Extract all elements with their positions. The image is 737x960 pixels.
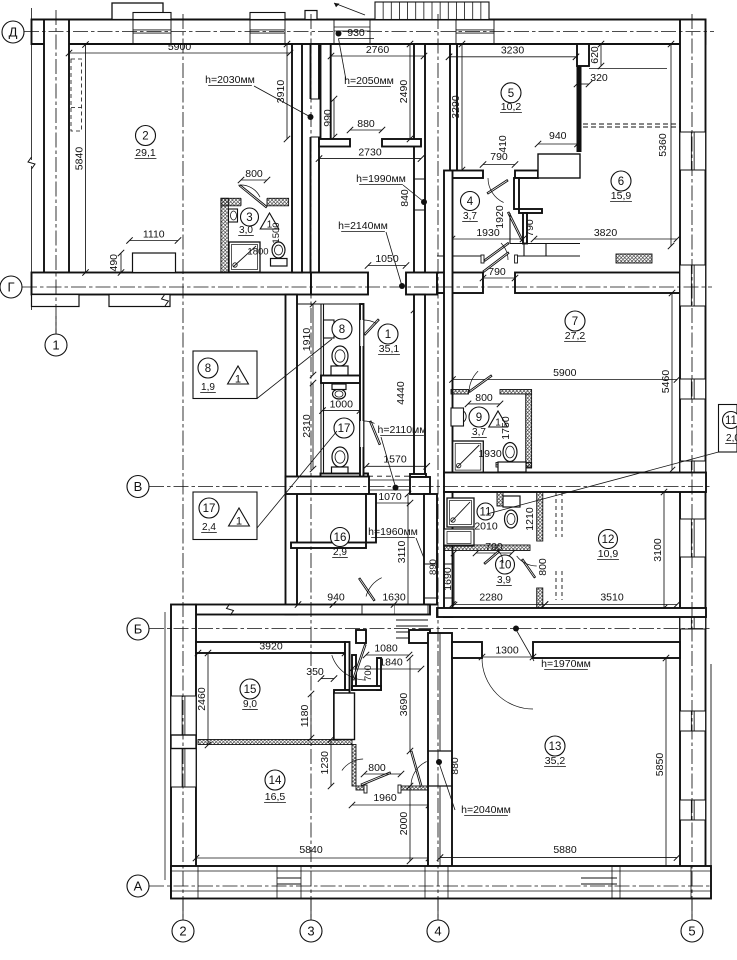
svg-text:3910: 3910 [275, 80, 287, 104]
room 4 top wall [450, 171, 483, 179]
room 17 toilet [332, 447, 348, 467]
stair wall opening [425, 564, 436, 598]
dimension 2490 [409, 44, 411, 139]
svg-text:700: 700 [363, 665, 374, 681]
dimension 1690 [453, 553, 455, 605]
svg-text:3820: 3820 [594, 227, 618, 239]
svg-text:1,9: 1,9 [201, 382, 215, 393]
top wall window W1 [133, 20, 171, 45]
partition 10/12 hatched upper [537, 492, 543, 541]
dimension 880 door [350, 129, 382, 131]
leader h=1990 [403, 185, 424, 202]
room 9 north wall hatched [451, 390, 469, 395]
room 11 shower [447, 498, 474, 527]
dimension 490 [120, 253, 122, 273]
dimension 5840 room2 [85, 45, 87, 273]
dimension 3910 [286, 44, 288, 139]
dimension 1230 [330, 740, 332, 787]
svg-text:2,9: 2,9 [333, 547, 347, 558]
band A (block bottom wall) [196, 605, 430, 615]
svg-text:790: 790 [490, 151, 508, 163]
wc block top wall line [297, 303, 363, 305]
left exterior wall [44, 20, 69, 273]
svg-text:8: 8 [205, 363, 211, 375]
svg-text:1920: 1920 [494, 205, 506, 229]
svg-text:1230: 1230 [319, 751, 331, 775]
axis circle G [0, 276, 22, 298]
V wall left block [286, 477, 370, 495]
top wall window W2 [250, 20, 285, 45]
room13 north wall [452, 642, 482, 658]
dot h=2140 [399, 283, 405, 289]
dimension 5840 bottom [196, 857, 429, 859]
svg-text:490: 490 [108, 254, 120, 272]
svg-text:h=2040мм: h=2040мм [461, 804, 511, 816]
svg-text:6: 6 [618, 176, 624, 188]
svg-text:3,0: 3,0 [239, 225, 253, 236]
west wall opening 890 [445, 564, 452, 598]
closet dividers [523, 244, 525, 257]
bottom wall band with vents [171, 866, 711, 899]
svg-text:880: 880 [357, 118, 375, 130]
dimension 1630 bottom [333, 604, 394, 606]
room 2 number circle [136, 126, 156, 146]
dimension 1070 [369, 502, 410, 504]
svg-text:17: 17 [338, 423, 351, 435]
svg-text:35,2: 35,2 [545, 755, 566, 767]
svg-text:1960: 1960 [373, 792, 397, 804]
room 15 north wall [196, 642, 345, 653]
svg-text:1: 1 [385, 329, 391, 341]
dimension 800 room9 [468, 403, 500, 405]
svg-text:1500: 1500 [271, 222, 282, 243]
svg-text:8: 8 [339, 324, 345, 336]
svg-text:2: 2 [142, 131, 148, 143]
dot h=2040 [436, 759, 442, 765]
svg-text:1840: 1840 [379, 657, 403, 669]
axis circle D [2, 21, 24, 43]
svg-text:1080: 1080 [374, 643, 398, 655]
room 4 number circle [461, 192, 480, 211]
partition strip vert hatched [352, 745, 356, 787]
svg-text:1: 1 [235, 374, 241, 386]
right wall window y519 [680, 519, 706, 557]
opening 790 G wall [482, 273, 484, 294]
G wall band left stretch [32, 273, 312, 295]
dimension 1080 [366, 654, 409, 656]
right wall window y461 [680, 461, 706, 481]
svg-text:890: 890 [428, 559, 439, 575]
dimension 1570 [366, 465, 427, 467]
left wall pilaster [171, 735, 196, 749]
dimension 3230 [449, 56, 576, 58]
room 3 north wall hatched [221, 198, 289, 206]
axis stem 2 [182, 899, 184, 921]
svg-text:1930: 1930 [476, 227, 500, 239]
door leaf wc [508, 212, 523, 241]
room 8 toilet 2 [333, 389, 346, 399]
hall niche bottom [352, 686, 381, 690]
dimension 940 room5 [538, 143, 578, 145]
room 16 number circle [331, 528, 350, 547]
G wall break mark [162, 294, 169, 306]
party wall niche opening [303, 99, 330, 137]
pilaster above wall axis3 [305, 11, 317, 20]
dimension 1960 [352, 804, 429, 806]
svg-text:h=1970мм: h=1970мм [541, 658, 591, 670]
svg-text:Г: Г [7, 280, 14, 295]
wc partition 8/17 [321, 376, 360, 384]
svg-text:3690: 3690 [398, 693, 410, 717]
dimension 350 [321, 678, 334, 680]
door arc room4 top [488, 178, 504, 203]
middle block west wall [286, 295, 298, 615]
box17 leader [257, 431, 337, 528]
svg-text:800: 800 [537, 558, 549, 576]
svg-text:990: 990 [322, 109, 334, 127]
svg-text:2460: 2460 [196, 687, 208, 711]
partition y243 right flat [510, 243, 580, 245]
door 880 arc [411, 762, 427, 787]
dimension 2280 [453, 604, 546, 606]
svg-text:1570: 1570 [383, 454, 407, 466]
svg-text:5880: 5880 [553, 844, 577, 856]
svg-text:3,7: 3,7 [463, 211, 477, 222]
svg-text:350: 350 [306, 666, 324, 678]
band A opening door16 [362, 606, 394, 614]
axis stem 4 [437, 899, 439, 921]
room 2 radiator rect [133, 253, 176, 273]
room 8 number circle (plan) [332, 319, 352, 339]
svg-text:4440: 4440 [395, 381, 407, 405]
leader h=2050 [339, 39, 347, 81]
svg-text:790: 790 [524, 219, 536, 237]
leader h=1960 [416, 538, 431, 576]
svg-text:3230: 3230 [501, 45, 525, 57]
room 5 number circle [501, 83, 521, 103]
room 8 toilet 1 [332, 346, 348, 366]
svg-text:3,9: 3,9 [497, 575, 511, 586]
wc door 8 opening [360, 320, 363, 346]
axis stem 1 [55, 316, 57, 334]
dimension 3820 [534, 238, 677, 240]
partition 15/14 hatched [198, 740, 352, 745]
dimension 3510 [545, 604, 677, 606]
box8 triangle [228, 366, 249, 384]
svg-text:800: 800 [475, 392, 493, 404]
room 6 number circle [611, 171, 631, 191]
party wall axis3 left layer [292, 44, 302, 273]
partition y786 hatched [356, 786, 364, 790]
svg-text:800: 800 [245, 168, 263, 180]
dimension 5360 [670, 44, 672, 246]
wc west thin wall [320, 304, 322, 479]
room 7 number circle [565, 311, 585, 331]
svg-text:h=2050мм: h=2050мм [344, 75, 394, 87]
room 2 vent niche dashed [71, 59, 82, 131]
svg-text:880: 880 [449, 757, 461, 775]
room 3 west wall hatched [221, 198, 229, 272]
svg-text:1800: 1800 [247, 247, 268, 258]
dimension 990 niche [333, 99, 335, 137]
svg-text:2,0: 2,0 [726, 433, 737, 444]
dimension 700 [476, 552, 512, 554]
dimension 3920 [198, 652, 345, 654]
room13 west wall inner line [439, 633, 441, 751]
dimension 3690 [409, 658, 411, 751]
right wall window y711 [680, 711, 706, 731]
room 3 shower tray [229, 242, 260, 272]
axis D line [24, 31, 714, 33]
dimension 320 [577, 83, 589, 85]
door arc vestibule [501, 243, 508, 260]
room 9 toilet [503, 443, 517, 462]
dot 930 [336, 31, 342, 37]
svg-text:Б: Б [134, 622, 143, 637]
dimension 3110 [407, 494, 409, 610]
svg-text:5900: 5900 [168, 41, 192, 53]
window W3 symbol [455, 20, 457, 45]
svg-text:2730: 2730 [358, 147, 382, 159]
room 11 number circle [477, 503, 494, 520]
svg-text:А: А [134, 879, 143, 894]
svg-text:2760: 2760 [366, 44, 390, 56]
svg-text:5360: 5360 [657, 133, 669, 157]
svg-text:5: 5 [688, 924, 695, 939]
svg-text:1070: 1070 [378, 491, 402, 503]
leader h=2030 [254, 86, 311, 117]
svg-text:h=2030мм: h=2030мм [205, 74, 255, 86]
dimension 1930 room4 [452, 238, 523, 240]
svg-text:1180: 1180 [299, 705, 311, 728]
room 15 number circle [240, 679, 260, 699]
right wall window y132 [680, 132, 706, 170]
wc door 17 leaf [370, 421, 381, 445]
axis 3 line [310, 14, 312, 918]
svg-text:11: 11 [725, 415, 737, 427]
door 1300 jambs [481, 642, 483, 658]
svg-text:h=1990мм: h=1990мм [356, 173, 406, 185]
wc door 8 leaf [364, 319, 379, 335]
G wall pilaster bump 2 [109, 295, 170, 307]
svg-text:10,9: 10,9 [598, 548, 619, 560]
leader h=2110 [381, 437, 396, 487]
room 9 east wall hatched [526, 394, 532, 468]
svg-text:5900: 5900 [553, 367, 577, 379]
axis stem 5 [691, 899, 693, 921]
axis G line [22, 286, 712, 288]
dimension 2000 [409, 786, 411, 861]
dimension 800 room3 [241, 179, 267, 181]
svg-text:Д: Д [9, 25, 18, 40]
stair party wall [424, 494, 437, 605]
dot h=1970 [513, 626, 519, 632]
svg-text:3: 3 [246, 212, 252, 224]
wall room4 east [523, 213, 527, 244]
left wall window y748 [171, 748, 196, 787]
entrance opening jambs [333, 20, 335, 45]
annotation box 8 [193, 351, 257, 399]
axis A line [149, 885, 711, 887]
party wall axis3 right layer [311, 44, 320, 273]
svg-text:620: 620 [589, 46, 601, 64]
svg-text:5: 5 [508, 88, 514, 100]
dimension 1840 [352, 668, 421, 670]
axis circle V [127, 476, 149, 498]
hall door arc [332, 655, 366, 680]
dimension 3290 [461, 44, 463, 170]
room 1 number circle [378, 324, 398, 344]
left wall outer line [164, 612, 166, 880]
room 9 washbasin [451, 408, 464, 426]
dimension 2460 [207, 653, 209, 745]
box11 circle [723, 412, 737, 429]
hall top band [356, 630, 366, 643]
dot h=1960 [428, 574, 434, 580]
svg-text:1750: 1750 [500, 416, 512, 440]
dimension 790 door5 [483, 164, 515, 166]
dimension 4440 [413, 310, 415, 476]
opening 880 jambs [349, 139, 351, 147]
room 9 shower [453, 441, 484, 473]
room 11 bath [444, 529, 474, 546]
door leaf G door [483, 252, 509, 272]
block 10 west wall [444, 492, 453, 617]
top wall (axis D) outer band [32, 20, 706, 45]
room15 east wall lower [334, 694, 338, 740]
axis 2 line [182, 14, 184, 918]
band A opening porch [394, 606, 428, 614]
svg-text:3100: 3100 [652, 538, 664, 562]
axis circle B [127, 618, 149, 640]
entrance porch steps [375, 2, 489, 20]
upper middle room walls: party wall axis4 left strip [414, 44, 425, 273]
door 800 arc [342, 759, 363, 771]
room 10 door leaf [484, 551, 499, 564]
svg-text:4: 4 [467, 196, 474, 208]
room13 west door opening [429, 751, 451, 786]
vestibule door leaf [359, 578, 375, 601]
svg-text:9,0: 9,0 [243, 699, 257, 710]
right wall window y379 [680, 379, 706, 399]
svg-text:4: 4 [434, 924, 441, 939]
niche leader dot [308, 114, 314, 120]
room 17 bottom wall [321, 474, 368, 479]
door 10/12 leaf [522, 559, 536, 578]
dimension 5460 [671, 293, 673, 470]
svg-text:10: 10 [499, 560, 512, 572]
left wall bottom block [171, 605, 196, 898]
vestibule door arc [366, 578, 382, 597]
box11 leader [487, 452, 719, 514]
svg-text:1050: 1050 [375, 253, 399, 265]
svg-text:14: 14 [269, 775, 282, 787]
room1 bottom wall piece [364, 474, 369, 479]
svg-text:940: 940 [549, 130, 567, 142]
dimension 1910 [312, 304, 314, 375]
wc door 17 opening [360, 421, 363, 447]
svg-text:2000: 2000 [398, 812, 410, 836]
dimension 1050 [368, 265, 406, 267]
svg-text:29,1: 29,1 [135, 147, 156, 159]
axis 4 line [437, 14, 439, 918]
room 9 south wall hatched [496, 463, 532, 468]
axis circle A [127, 875, 149, 897]
box8 leader [257, 339, 332, 399]
room 11 hatch top [497, 492, 503, 506]
svg-text:11: 11 [480, 507, 492, 519]
svg-text:h=1960мм: h=1960мм [368, 526, 418, 538]
dimension 1180 [310, 694, 312, 738]
door leaf vestibule [484, 243, 509, 262]
leader h=1970 [516, 630, 534, 662]
dimension 790 G door [483, 277, 515, 279]
dot h=1990 [421, 199, 427, 205]
G wall middle stretch [311, 273, 368, 295]
window W1 symbol [132, 20, 134, 45]
rooms 5/6 dashed partition [583, 123, 680, 125]
room 17 number circle (plan) [334, 418, 354, 438]
G wall pilaster bump 1 [32, 295, 80, 307]
svg-text:1110: 1110 [143, 229, 165, 241]
svg-text:930: 930 [347, 27, 365, 39]
balcony slab top-left [112, 3, 163, 20]
axis V line [149, 486, 711, 488]
dimension 940 bottom [298, 604, 333, 606]
svg-text:13: 13 [549, 741, 562, 753]
top wall window W3 [456, 20, 494, 45]
dimension 1110 [130, 240, 179, 242]
room 10 number circle [496, 555, 515, 574]
svg-text:1: 1 [236, 516, 242, 528]
axis circle 4 [427, 920, 449, 942]
svg-text:3510: 3510 [600, 592, 624, 604]
room 9 number circle [469, 407, 489, 427]
room 14 number circle [265, 770, 285, 790]
room16 south wall [291, 543, 366, 549]
wc door 17 arc [364, 421, 375, 423]
svg-text:5840: 5840 [74, 147, 86, 171]
opening 1050 in G wall [367, 273, 369, 295]
svg-text:1930: 1930 [478, 448, 502, 460]
room 9 triangle [489, 411, 508, 427]
axis circle 3 [300, 920, 322, 942]
room16 partition [366, 494, 376, 543]
band A break mark [227, 604, 234, 616]
partition 11/10 hatched [444, 545, 530, 551]
svg-text:h=2110мм: h=2110мм [378, 424, 427, 436]
door 800 leaf [361, 772, 391, 785]
svg-text:9: 9 [476, 412, 482, 424]
room 3 door leaf [239, 185, 267, 208]
svg-text:3290: 3290 [450, 95, 462, 119]
axis stem 3 [310, 899, 312, 921]
room5/6 pier wall [577, 44, 589, 66]
svg-text:2280: 2280 [479, 592, 503, 604]
room 10 door arc [494, 547, 504, 564]
annotation box 17 [193, 492, 257, 540]
dimension 620 [600, 44, 602, 66]
axis 5 line [691, 14, 693, 918]
wall room4 wc west [514, 178, 519, 209]
svg-text:17: 17 [203, 503, 216, 515]
svg-text:3,7: 3,7 [472, 427, 486, 438]
door leaf room4 top [487, 180, 508, 194]
party wall axis4 right strip [450, 44, 457, 171]
dimension 5900 room7 [453, 379, 678, 381]
room 3 toilet [272, 242, 285, 258]
room 8 washbasin [324, 320, 335, 338]
